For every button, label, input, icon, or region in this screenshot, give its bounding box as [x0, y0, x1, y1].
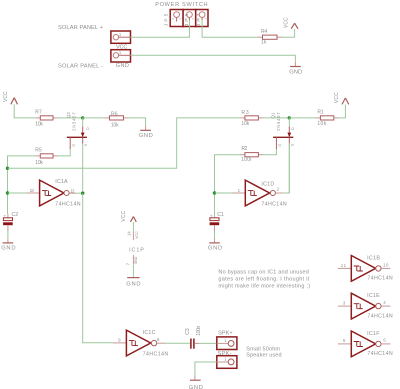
capacitor C3 100n: [185, 326, 202, 349]
wire node to IC1D pin 1: [215, 192, 232, 194]
jumper JP6: [183, 10, 196, 27]
note text: [218, 270, 310, 290]
resistor R6 10k: [104, 111, 128, 128]
svg-text:R2: R2: [241, 146, 247, 152]
wire Q1 gate to R2: [263, 149, 276, 154]
wire C2 to ground: [7, 232, 9, 239]
label SOLAR PANEL +: [58, 25, 104, 31]
wire rail to R3: [8, 118, 240, 168]
transistor Q1 2N5457: [271, 112, 295, 150]
capacitor C1 (polarized): [210, 212, 224, 231]
ground (top right): [289, 62, 302, 76]
supply VCC (top left): [3, 91, 17, 104]
resistor R3 10k: [240, 110, 264, 127]
node junction (rail y168): [6, 167, 9, 170]
svg-text:R3: R3: [241, 110, 248, 116]
connector SOLAR PANEL - (GND): [111, 50, 131, 69]
connector SPK+: [217, 331, 237, 350]
wire R7 to node: [58, 117, 83, 119]
node junction (IC1D input): [213, 191, 216, 194]
svg-text:10k: 10k: [241, 121, 249, 127]
svg-text:G: G: [72, 144, 76, 147]
svg-text:GND: GND: [189, 385, 203, 389]
svg-text:Speaker used: Speaker used: [246, 353, 281, 359]
resistor R1 10k: [315, 109, 338, 127]
op-amp IC1F 74HC14N pin5 pin6: [338, 331, 393, 357]
op-amp IC1A 74HC14N pin13 pin12: [26, 179, 81, 207]
svg-text:4: 4: [383, 300, 386, 305]
svg-text:S: S: [291, 143, 295, 146]
svg-text:14: 14: [127, 231, 132, 236]
svg-text:VCC: VCC: [283, 17, 289, 28]
svg-text:11: 11: [341, 263, 347, 268]
svg-text:SOLAR PANEL +: SOLAR PANEL +: [58, 25, 104, 31]
wire rail to IC1A input: [8, 192, 27, 194]
wire R4 to VCC: [282, 29, 295, 37]
svg-text:IC1C: IC1C: [143, 330, 156, 336]
svg-text:6: 6: [383, 338, 386, 343]
svg-text:10k: 10k: [35, 160, 43, 166]
svg-text:10k: 10k: [111, 122, 119, 128]
svg-text:IC1B: IC1B: [367, 255, 380, 261]
svg-text:D: D: [291, 127, 295, 130]
power pins IC1P 74HC14N pin14 pin7: [121, 210, 144, 287]
svg-text:IC1E: IC1E: [367, 293, 380, 299]
svg-text:GND: GND: [116, 63, 129, 69]
svg-text:R5: R5: [35, 148, 42, 154]
svg-text:might make life more interesti: might make life more interesting :): [218, 283, 310, 289]
svg-text:JP5: JP5: [164, 13, 169, 26]
op-amp IC1B 74HC14N pin11 pin10: [338, 255, 393, 281]
wire IC1D output up to node: [283, 144, 289, 193]
svg-text:S: S: [84, 143, 88, 146]
wire C3 to SPK+: [200, 342, 217, 344]
op-amp IC1C 74HC14N pin9 pin8: [113, 330, 168, 357]
svg-text:Q1: Q1: [271, 112, 276, 119]
svg-text:2N5457: 2N5457: [276, 112, 281, 131]
svg-text:IC1P: IC1P: [129, 247, 144, 253]
svg-text:R6: R6: [111, 111, 118, 117]
svg-text:R1: R1: [317, 109, 324, 115]
ground (C2): [1, 238, 15, 251]
svg-text:GND: GND: [134, 256, 138, 264]
wire solar+ to switch JP6: [131, 20, 190, 37]
wire node to R6: [83, 117, 105, 119]
wire node to R1: [289, 117, 315, 119]
transistor Q2 2N5457: [66, 112, 90, 150]
wire solar- to ground: [131, 55, 296, 62]
resistor R2 100r: [240, 146, 264, 163]
jumper JP5: [164, 10, 183, 27]
svg-text:5: 5: [343, 338, 346, 343]
svg-text:POWER SWITCH: POWER SWITCH: [155, 2, 207, 8]
wire left rail: [8, 156, 36, 214]
svg-text:R4: R4: [261, 29, 268, 35]
svg-text:IC1D: IC1D: [261, 181, 274, 187]
svg-text:VCC: VCC: [3, 91, 9, 102]
wire R1 to VCC: [339, 105, 346, 118]
ground (C1): [208, 238, 222, 251]
resistor R5 10k: [35, 148, 57, 166]
svg-text:74HC14N: 74HC14N: [261, 201, 286, 207]
svg-text:IC1F: IC1F: [367, 331, 380, 337]
ground (R6): [139, 126, 153, 139]
op-amp IC1E 74HC14N pin3 pin4: [338, 293, 393, 319]
svg-text:C3: C3: [185, 328, 191, 335]
node junction (Q2 drain): [81, 116, 84, 119]
resistor R4 1k: [258, 29, 283, 45]
supply VCC (top right): [283, 17, 298, 29]
svg-text:74HC14N: 74HC14N: [367, 276, 392, 282]
svg-text:100r: 100r: [241, 157, 252, 163]
wire IC1C output to C3: [166, 342, 190, 344]
capacitor C2 (polarized): [3, 212, 18, 231]
svg-text:IC1A: IC1A: [55, 179, 68, 185]
svg-text:GND: GND: [208, 245, 222, 251]
wire R3 to node: [263, 117, 289, 119]
node junction (rail y193): [6, 191, 9, 194]
svg-text:Q2: Q2: [66, 112, 71, 119]
svg-text:3: 3: [343, 300, 346, 305]
wire Q2 gate down: [58, 149, 70, 156]
svg-text:12: 12: [70, 188, 75, 193]
wire Q2 source down to IC1A output node: [82, 144, 84, 194]
label POWER SWITCH: [155, 2, 207, 8]
note speaker: [246, 347, 281, 359]
svg-text:VCC: VCC: [135, 231, 139, 239]
ground (SPK-): [189, 375, 203, 389]
wire SPK- to ground: [195, 362, 217, 375]
svg-text:VCC: VCC: [334, 92, 340, 103]
resistor R7 10k: [35, 109, 57, 127]
wire R2 to IC1D input node: [215, 155, 240, 218]
svg-text:gates are left floating. I tho: gates are left floating. I thought it: [218, 276, 309, 282]
node junction (Q1 drain): [288, 116, 291, 119]
svg-text:VCC: VCC: [121, 210, 127, 221]
svg-text:13: 13: [30, 188, 35, 193]
connector SPK-: [217, 351, 237, 369]
svg-text:R7: R7: [35, 109, 42, 115]
connector SOLAR PANEL + (VCC): [111, 31, 131, 50]
svg-text:JP7: JP7: [196, 13, 201, 26]
svg-text:GND: GND: [139, 133, 153, 139]
wire Q1 source down to IC1D output: [288, 144, 290, 193]
jumper JP7: [196, 10, 208, 27]
svg-text:2N5457: 2N5457: [72, 112, 77, 131]
wire C1 to ground: [214, 232, 216, 239]
svg-text:74HC14N: 74HC14N: [367, 313, 392, 319]
svg-text:10: 10: [383, 262, 389, 267]
node junction (IC1A output): [81, 192, 84, 195]
svg-text:1k: 1k: [261, 40, 267, 46]
label SOLAR PANEL -: [58, 64, 103, 70]
svg-text:7: 7: [126, 262, 131, 265]
wire IC1A output to node: [76, 192, 83, 194]
svg-text:No bypass cap on IC1 and unuse: No bypass cap on IC1 and unused: [218, 270, 308, 276]
wire R6 to ground: [129, 118, 146, 126]
svg-text:SPK+: SPK+: [218, 331, 233, 337]
svg-text:D: D: [86, 127, 90, 130]
svg-text:74HC14N: 74HC14N: [367, 351, 392, 357]
svg-text:10k: 10k: [317, 121, 326, 127]
svg-text:GND: GND: [289, 69, 302, 75]
supply VCC (right): [334, 92, 349, 104]
svg-text:GND: GND: [1, 245, 15, 251]
svg-text:GND: GND: [126, 282, 140, 288]
svg-text:8: 8: [157, 337, 160, 342]
wire switch JP7 to R4: [202, 20, 257, 37]
svg-text:SOLAR PANEL -: SOLAR PANEL -: [58, 64, 103, 70]
wire IC1A output node down to IC1C: [83, 193, 113, 343]
wire VCC to R7: [14, 104, 35, 118]
svg-text:10k: 10k: [35, 122, 43, 128]
svg-text:100n: 100n: [196, 326, 202, 336]
svg-text:1: 1: [238, 188, 241, 193]
svg-text:9: 9: [118, 337, 121, 342]
svg-text:2: 2: [277, 187, 280, 192]
svg-text:G: G: [278, 144, 282, 147]
svg-text:74HC14N: 74HC14N: [143, 351, 169, 357]
op-amp IC1D 74HC14N pin1 pin2: [232, 180, 287, 207]
svg-text:74HC14N: 74HC14N: [55, 201, 80, 207]
svg-text:JP6: JP6: [184, 13, 189, 26]
